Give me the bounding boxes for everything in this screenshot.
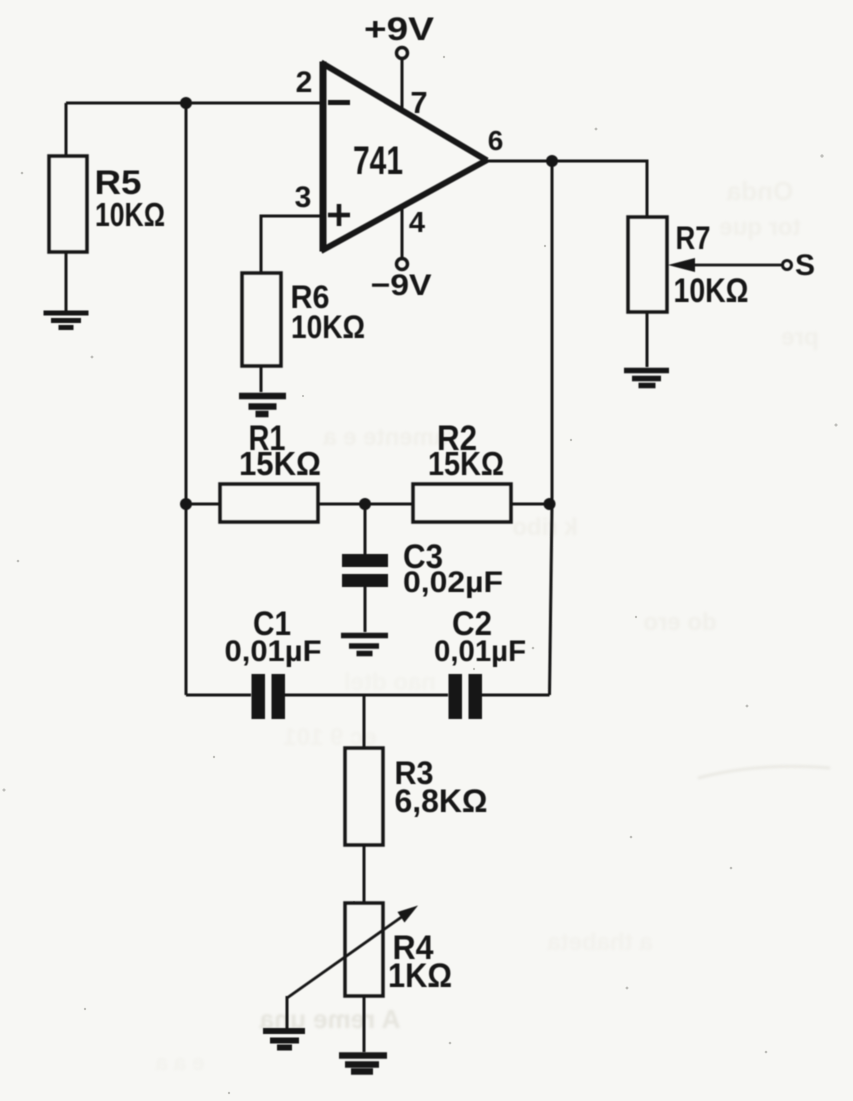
resistor R5 [49,156,87,252]
label pin 2 [296,66,313,99]
wire left vertical bus [185,103,188,695]
label R1 value [239,419,321,482]
label pin 4 [409,207,425,239]
node junction center [359,498,371,510]
svg-text:−9V: −9V [371,269,432,302]
label pin 7 [410,85,427,120]
op-amp minus input sign [328,100,350,105]
terminal -9V [397,259,408,270]
node junction R2 right [544,498,556,510]
wire output to R7 [486,161,647,217]
wire R5 bottom lead [65,252,68,311]
terminal +9V [397,48,408,59]
svg-text:4: 4 [409,207,425,239]
label C3 value [403,538,503,599]
wire right vertical bus [550,161,553,695]
node output junction [546,155,558,167]
capacitor C3 [342,554,388,587]
svg-text:7: 7 [410,85,427,120]
node junction top-left [180,97,192,109]
wire pin3 lead [261,216,320,273]
op-amp plus input sign [328,204,350,226]
ground under R5 [44,313,89,328]
ground under R6 [239,396,286,414]
node junction R1 left [180,498,192,510]
svg-text:+9V: +9V [364,11,435,47]
svg-text:Onda: Onda [726,176,793,206]
resistor R2 [413,484,511,522]
svg-text:R7: R7 [676,220,711,256]
svg-text:0,02µF: 0,02µF [403,566,503,599]
resistor R1 [220,484,318,522]
svg-text:6,8KΩ: 6,8KΩ [395,783,488,819]
wire R5 top lead [65,103,68,156]
svg-text:15KΩ: 15KΩ [428,445,504,482]
ground wiper R4 [263,1031,305,1048]
label pin 3 [295,181,312,214]
R4 adjustment arrow [287,906,418,999]
label R5 value [95,164,166,233]
label R6 value [291,279,366,345]
resistor R6 [242,273,281,366]
label R2 value [428,419,504,482]
wire pin7 supply lead [401,59,404,110]
wire bottom rail center [285,694,448,697]
wire R4 wiper to ground [286,996,289,1028]
wire bottom rail left [186,694,251,697]
label R3 value [395,755,488,819]
label +9V [364,11,435,47]
resistor R7 potentiometer [628,217,667,312]
wire R1 left lead [186,503,220,506]
ground under C3 [341,636,388,654]
svg-text:2: 2 [296,66,313,99]
wire R3 to R4 [363,845,366,903]
ground under R7 [624,371,669,386]
svg-text:S: S [795,249,815,282]
svg-text:1KΩ: 1KΩ [388,957,452,995]
wire R2 right lead [511,503,550,506]
capacitor C2 [449,674,483,719]
wire R7 bottom lead [646,312,649,367]
capacitor C1 [252,674,286,719]
svg-text:6: 6 [488,125,504,156]
wire C3 top lead [364,504,367,554]
ground under R4 [339,1056,387,1072]
svg-text:nao dtel: nao dtel [344,669,436,696]
resistor R4 potentiometer [345,903,383,996]
wire R3 top lead [363,695,366,748]
wire top rail pin2 [66,102,320,105]
label S [795,249,815,282]
wire R4 bottom lead [363,996,366,1052]
wire C3 bottom lead [364,587,367,632]
terminal S [783,261,792,270]
svg-text:10KΩ: 10KΩ [95,196,165,233]
svg-text:a thabeta: a thabeta [547,929,653,956]
resistor R3 [345,748,383,845]
wire pin4 supply lead [401,206,404,259]
svg-text:tor que: tor que [719,214,800,241]
wire bottom rail right [482,694,550,697]
label R7 value [674,220,749,310]
wire R7 wiper arm [668,258,782,272]
svg-text:10KΩ: 10KΩ [674,272,749,310]
svg-text:3: 3 [295,181,312,214]
wire R1 to R2 [318,503,413,506]
svg-text:pre: pre [781,324,818,351]
label C2 value [434,605,526,668]
label pin 6 [488,125,504,156]
svg-text:0,01µF: 0,01µF [225,635,322,668]
svg-text:10KΩ: 10KΩ [291,309,365,345]
svg-text:741: 741 [353,139,403,183]
op-amp U1 741 [321,62,487,252]
label -9V [371,269,432,302]
svg-text:15KΩ: 15KΩ [239,445,321,482]
label R4 value [388,929,452,995]
svg-text:0,01µF: 0,01µF [434,635,526,668]
svg-text:k ribo: k ribo [512,514,577,541]
wire R6 bottom lead [260,366,263,392]
label C1 value [225,605,322,668]
svg-text:do ero: do ero [643,609,716,636]
svg-text:e a a: e a a [155,1050,205,1075]
